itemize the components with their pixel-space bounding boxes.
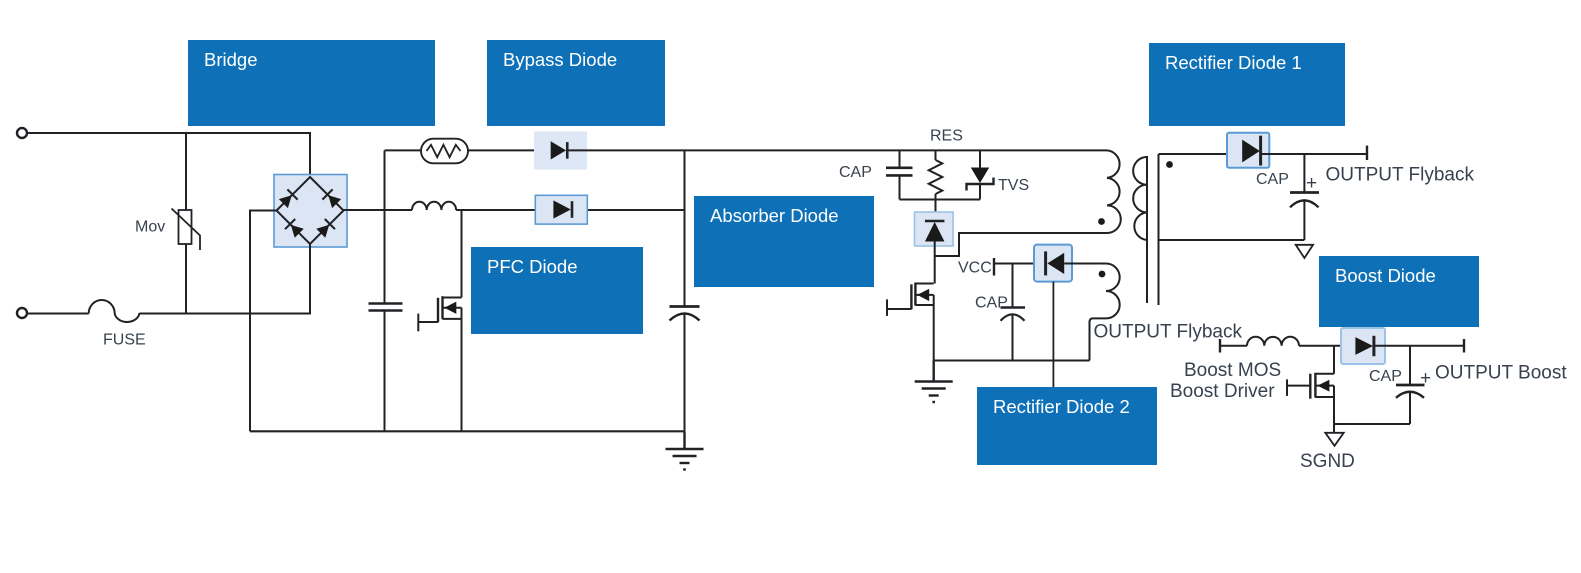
callout box Boost Diode [1319,256,1479,327]
annotation texts [103,128,1567,473]
svg-text:TVS: TVS [998,177,1029,194]
callout box Rectifier Diode 1 [1149,43,1345,126]
ground (primary) [666,431,704,469]
secondary top lead [1159,153,1243,155]
varistor Mov lead top [185,133,187,210]
absorber diode (pointing up) [925,221,945,242]
snubber resistor RES [935,150,937,160]
wire bottom rail [250,430,685,432]
boost MOSFET drain wire [1333,346,1335,374]
boost bottom wire [1334,423,1410,425]
bridge diamond wires [277,177,344,244]
flyback out cap (polarized) [1303,154,1305,192]
SGND arrow [1333,424,1335,433]
fusible resistor (oval) [421,139,468,164]
svg-text:FUSE: FUSE [103,332,146,349]
absorber diode highlight [915,212,954,246]
callout box Rectifier Diode 2 [977,387,1157,465]
TVS diode [979,150,981,168]
svg-text:CAP: CAP [975,295,1008,312]
callout box Bypass Diode [487,40,665,126]
transformer primary winding [1107,150,1121,233]
rectifier diode 2 highlight [1034,245,1072,282]
transformer aux winding [1090,264,1120,323]
svg-text:SGND: SGND [1300,451,1355,472]
rectifier diode 1 [1242,136,1260,166]
svg-text:Mov: Mov [135,219,165,236]
wire bypass diode to bulk node [567,149,684,151]
rectifier diode 1 highlight [1227,133,1269,168]
bridge diode D-TR [322,189,341,208]
wire bypass branch vertical [384,150,386,302]
svg-text:Boost MOS: Boost MOS [1184,360,1281,381]
callout box Absorber Diode [694,196,874,287]
wire to fuse [27,313,89,315]
net end tick (boost out) [1463,339,1465,353]
wire oval to bypass diode [468,149,551,151]
wire inductor to boost diode [1299,345,1355,347]
fuse FUSE [89,300,140,322]
svg-text:+: + [1306,173,1317,194]
svg-text:VCC: VCC [958,260,992,277]
wire PFC diode to bulk node [573,209,685,211]
snubber bottom wire [900,199,981,201]
svg-text:OUTPUT Flyback: OUTPUT Flyback [1094,322,1243,343]
bypass diode [551,141,568,159]
svg-text:CAP: CAP [1256,171,1289,188]
wire fuse to bridge bottom line [140,313,312,315]
bridge diode D-TL [278,189,297,208]
boost MOSFET [1315,373,1334,375]
callout box Bridge [188,40,435,126]
svg-text:CAP: CAP [839,164,872,181]
varistor Mov diagonal [172,209,201,251]
polarity dot aux [1099,271,1106,278]
boost MOSFET source wire [1333,386,1335,424]
callout box PFC Diode [471,247,643,334]
wire bypass line left [385,149,422,151]
rectifier diode 2 (pointing left) [1046,251,1065,275]
transformer secondary winding [1133,157,1147,240]
ground arrow (flyback out) [1296,245,1313,258]
bridge diode D-BR [316,219,335,238]
wire choke to PFC diode [456,209,553,211]
wire diode2 to aux winding [1064,263,1106,265]
svg-text:Boost Driver: Boost Driver [1170,381,1275,402]
wire diode1 to output [1261,153,1367,155]
VCC net tick [993,258,995,276]
inductor PFC choke [412,202,456,210]
wire aux bottom [1089,321,1091,361]
svg-text:OUTPUT Flyback: OUTPUT Flyback [1326,165,1475,186]
capacitor bulk (polarized) [684,150,686,305]
bottom auxiliary wire [934,360,1090,362]
primary return step wire [935,233,1107,256]
polarity dot primary [1098,218,1105,225]
boost out cap (polarized) [1409,346,1411,385]
PFC diode highlight [535,195,587,224]
wire boost diode to output [1374,345,1464,347]
boost input tick [1219,339,1221,353]
svg-text:+: + [1420,368,1431,389]
wire top AC rail [27,133,310,177]
wire to boost inductor [1220,345,1247,347]
bypass diode highlight [534,132,587,170]
boost diode highlight [1341,328,1385,364]
terminal T1 (line input top) [17,128,27,138]
polarity dot secondary [1166,161,1173,168]
transformer core [1146,156,1148,303]
wire bridge left to bottom rail [250,211,277,432]
varistor Mov body [179,210,192,244]
PFC MOSFET drain wire [461,210,463,298]
bridge highlight box [274,175,347,248]
svg-text:RES: RES [930,128,963,145]
wire bridge right main DC line [344,209,413,211]
VCC cap (polarized) [1012,264,1014,307]
net end tick (flyback out) [1366,146,1368,160]
PFC MOSFET source wire [461,308,463,432]
secondary bottom lead [1159,239,1305,241]
boost inductor [1247,337,1299,346]
capacitor input filter [369,302,403,305]
wire VCC to diode2 [994,263,1045,265]
varistor Mov lead bottom [185,244,187,314]
svg-text:CAP: CAP [1369,368,1402,385]
boost diode [1355,336,1374,356]
terminal T2 (line input bottom) [17,308,27,318]
svg-text:OUTPUT Boost: OUTPUT Boost [1435,363,1567,384]
snubber cap branch [899,150,901,167]
leader line to label (rect diode 2) [1052,282,1054,388]
PFC MOSFET [443,297,462,299]
ground (flyback source) [915,361,953,403]
wire bridge bottom to AC line [309,244,311,314]
PFC diode [553,200,572,218]
wire bulk node to transformer primary [685,149,1108,151]
bridge diode D-BL [285,219,304,238]
flyback MOSFET [915,283,933,285]
wire absorber to MOSFET drain [934,242,936,284]
